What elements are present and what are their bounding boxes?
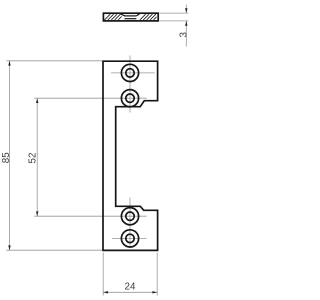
svg-text:52: 52 xyxy=(28,153,39,164)
svg-text:85: 85 xyxy=(1,152,12,163)
svg-text:3: 3 xyxy=(179,32,190,38)
svg-text:24: 24 xyxy=(125,281,136,292)
